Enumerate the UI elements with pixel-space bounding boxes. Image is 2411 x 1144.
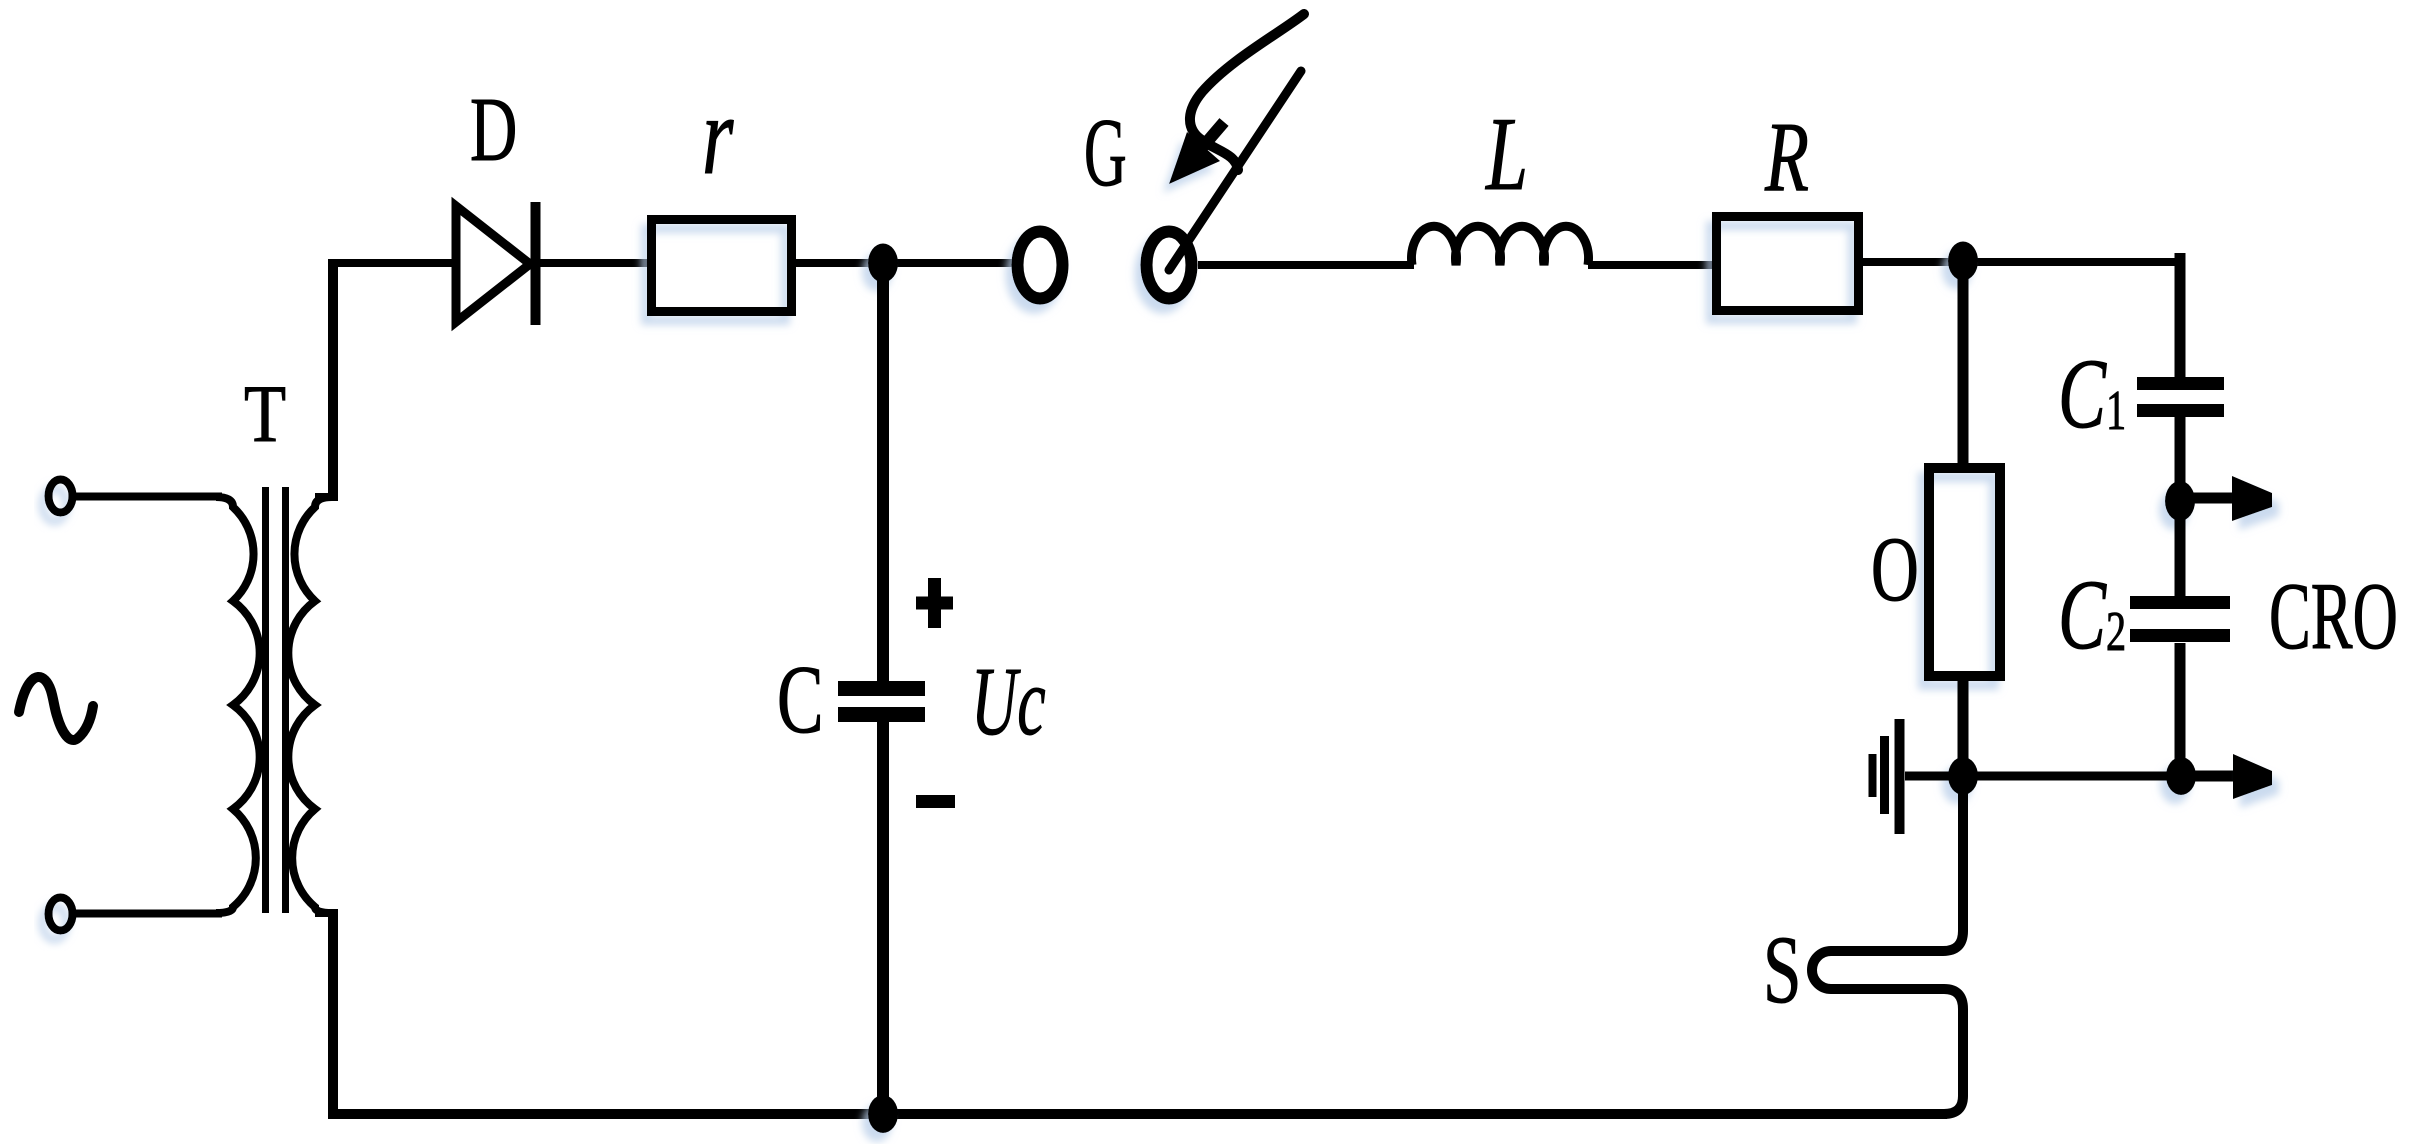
svg-text:O: O: [1871, 520, 1919, 621]
terminal top: [49, 480, 73, 513]
svg-text:C1: C1: [2058, 337, 2126, 448]
resistor R box: [1717, 217, 1859, 311]
minus sign: [916, 795, 955, 808]
capacitor C1 bottom plate: [2137, 404, 2224, 417]
plus sign: [928, 578, 941, 628]
resistor r box: [652, 220, 792, 312]
wire mid node to C2: [2175, 512, 2186, 597]
wire secondary top to riser: [315, 493, 338, 501]
ground bar middle: [1880, 736, 1889, 814]
spark gap G right electrode: [1147, 232, 1192, 299]
CRO arrow bottom head: [2233, 754, 2272, 799]
svg-text:D: D: [470, 80, 517, 181]
wire gap to L: [1198, 261, 1414, 269]
svg-text:C2: C2: [2058, 558, 2126, 669]
junction node after R: [1948, 242, 1978, 281]
wire top terminal to primary: [76, 493, 222, 501]
bottom junction node right: [2166, 757, 2196, 795]
junction node at C branch top: [868, 244, 898, 283]
riser bottom: [328, 913, 338, 1114]
wire C branch lower: [877, 722, 889, 1114]
arrowhead: [1169, 132, 1220, 184]
ground lead: [1905, 772, 1952, 781]
arrow shaft: [1200, 122, 1224, 150]
CRO arrow top head: [2232, 476, 2272, 521]
svg-text:R: R: [1764, 100, 1809, 211]
capacitor C top plate: [838, 681, 925, 696]
svg-text:G: G: [1084, 99, 1127, 206]
svg-text:S: S: [1763, 917, 1801, 1024]
inductor L: [1412, 226, 1589, 265]
diode D: [456, 206, 530, 322]
transformer T primary winding: [216, 497, 260, 913]
capacitor C1 top plate: [2137, 377, 2224, 390]
wire C2 to bottom node: [2175, 643, 2186, 770]
CRO arrow top shaft: [2180, 493, 2240, 504]
wire bottom terminal to primary: [76, 910, 222, 918]
terminal bottom: [49, 898, 73, 931]
wire O to ground node: [1958, 676, 1969, 778]
ground junction node: [1948, 757, 1978, 795]
svg-text:L: L: [1484, 95, 1528, 212]
diode cathode bar: [531, 202, 541, 325]
C1 branch vertical top: [2175, 253, 2186, 379]
wire C branch upper: [877, 263, 889, 682]
svg-text:T: T: [244, 370, 286, 460]
wire R to corner: [1859, 258, 2184, 266]
wire ground node to divider: [1963, 772, 2181, 781]
svg-text:C: C: [777, 647, 824, 754]
test object O box: [1929, 468, 2000, 676]
wire L to R: [1588, 261, 1718, 269]
ground bar short: [1869, 754, 1877, 797]
svg-text:r: r: [702, 74, 734, 198]
svg-text:Uc: Uc: [971, 648, 1046, 755]
bottom junction node: [868, 1095, 898, 1133]
svg-text:CRO: CRO: [2269, 564, 2398, 669]
wire r to node: [792, 259, 1014, 267]
ground bar long: [1895, 719, 1905, 834]
bottom return wire: [328, 1109, 1947, 1119]
spark gap G left electrode: [1018, 232, 1063, 299]
wire diode to r: [540, 259, 655, 267]
CRO arrow bottom shaft: [2181, 771, 2242, 782]
curved actuator flourish: [1190, 14, 1304, 170]
riser top: [328, 259, 338, 497]
wire C1 to mid node: [2175, 417, 2186, 494]
shunt S hairpin: [1812, 786, 1963, 1114]
transformer T secondary winding: [288, 497, 332, 913]
wire secondary bottom to riser: [315, 909, 338, 917]
AC source symbol: [19, 677, 93, 740]
capacitor C bottom plate: [838, 707, 925, 722]
mid junction node: [2165, 481, 2195, 521]
wire top main left: [328, 259, 458, 267]
capacitor C2 top plate: [2130, 596, 2230, 609]
capacitor C2 bottom plate: [2130, 629, 2230, 642]
switch blade: [1169, 71, 1301, 270]
wire node to O box: [1958, 262, 1969, 470]
transformer core: [262, 487, 269, 913]
